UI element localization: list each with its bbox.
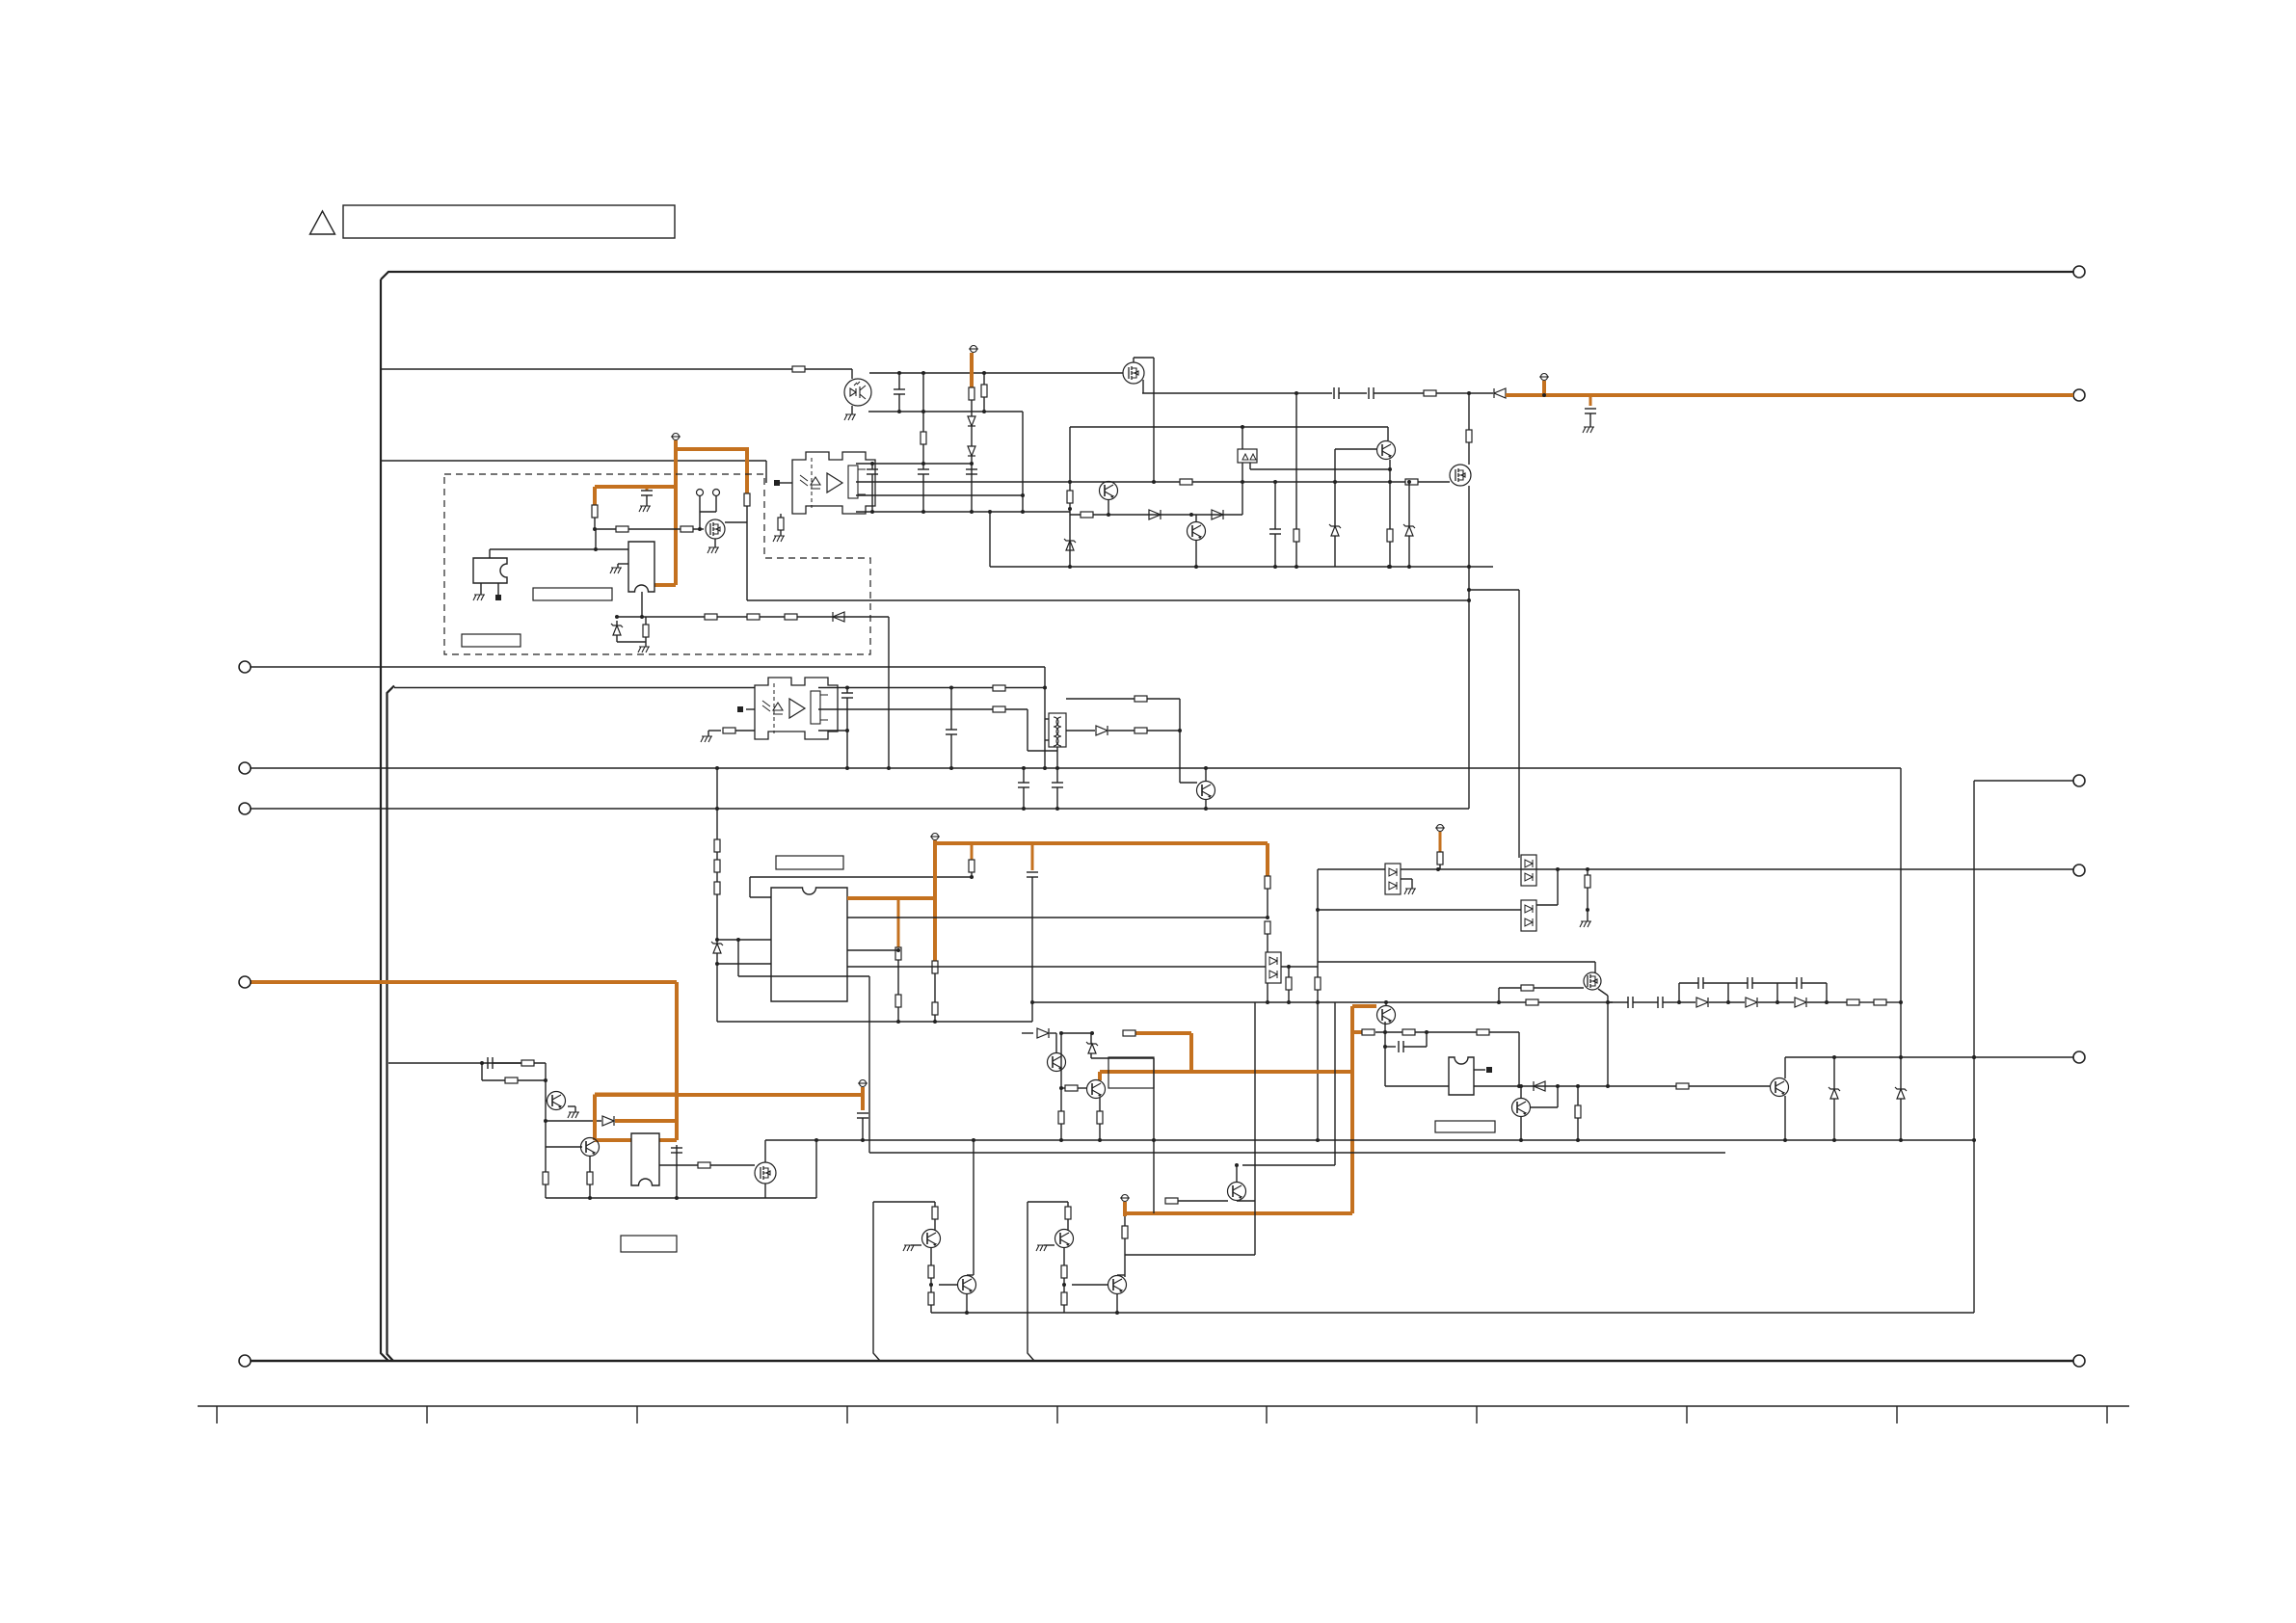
wire: [1045, 739, 1049, 741]
wire: [716, 953, 718, 1022]
resistor: [1065, 1207, 1071, 1219]
wire: [1469, 589, 1519, 591]
wire: [1249, 463, 1251, 469]
resistor: [1067, 491, 1073, 503]
junction: [949, 686, 953, 690]
bottom bus: [251, 1360, 2073, 1363]
wire: [950, 734, 952, 768]
transistor Q9: [1048, 1053, 1066, 1072]
long lower bus 2: [869, 1152, 1725, 1154]
label box: [776, 856, 843, 869]
wire: [1339, 392, 1367, 394]
orange wire: [593, 487, 597, 505]
junction: [1407, 565, 1411, 569]
junction: [965, 1311, 969, 1315]
junction: [1043, 686, 1047, 690]
wire: [1195, 515, 1197, 521]
wire: [1091, 1057, 1154, 1059]
test point: [697, 490, 704, 496]
orange bus: [1100, 1070, 1352, 1074]
main secondary sense wire: [1318, 868, 2073, 870]
capacitor: [1027, 871, 1038, 873]
capacitor: [841, 692, 853, 694]
resistor: [643, 625, 649, 637]
long mid wire: [1032, 1001, 1613, 1003]
junction: [1542, 393, 1546, 397]
orange stub: [861, 1087, 865, 1110]
junction: [1467, 599, 1471, 602]
connector terminal: [2073, 266, 2085, 278]
junction: [1316, 1000, 1320, 1004]
wire: [1807, 1001, 1827, 1003]
zener diode: [1830, 1089, 1838, 1099]
wire: [868, 411, 1023, 412]
wire: [1117, 1274, 1125, 1276]
wire: [1180, 782, 1197, 784]
wire: [738, 975, 869, 977]
wire: [1288, 990, 1290, 1002]
junction: [1899, 1055, 1903, 1059]
wire: [1066, 730, 1095, 732]
capacitor: [1585, 408, 1596, 410]
resistor: [714, 839, 720, 852]
capacitor: [487, 1057, 489, 1069]
ruler tick: [846, 1406, 848, 1423]
wire: [1474, 1069, 1485, 1071]
resistor: [1081, 512, 1093, 518]
resistor: [895, 995, 901, 1007]
wire: [1777, 982, 1797, 984]
wire: [1078, 1087, 1086, 1089]
input pin: [774, 480, 780, 486]
wire: [1067, 1202, 1069, 1207]
wire: [1577, 1118, 1579, 1140]
wire: [1142, 380, 1144, 393]
junction: [1055, 807, 1059, 811]
label box: [462, 634, 521, 647]
wire: [1703, 982, 1728, 984]
wire: [1826, 983, 1828, 1002]
wire: [1108, 481, 1109, 482]
junction: [1556, 867, 1560, 871]
diode: [1746, 998, 1757, 1007]
wire: [595, 528, 704, 530]
wire: [1116, 1294, 1118, 1313]
wire: [1205, 768, 1207, 781]
junction: [1497, 1000, 1501, 1004]
junction: [1043, 766, 1047, 770]
junction: [593, 527, 597, 531]
wire: [871, 464, 873, 469]
capacitor: [641, 490, 653, 492]
resistor: [616, 526, 628, 532]
wire: [1608, 1001, 1628, 1003]
wire: [1520, 1117, 1522, 1140]
orange wire: [595, 485, 676, 489]
wire: [1124, 1238, 1126, 1255]
wire: [1468, 442, 1470, 465]
wire: [1426, 1032, 1428, 1047]
wire: [847, 966, 1266, 968]
junction: [845, 686, 849, 690]
junction: [715, 766, 719, 770]
wire: [1594, 962, 1596, 972]
wire: [847, 917, 1268, 918]
orange wire: [1189, 1033, 1193, 1072]
wire: [950, 688, 952, 731]
junction: [1383, 1045, 1387, 1049]
orange wire IC supply: [847, 896, 935, 900]
zener diode: [613, 625, 621, 635]
orange bus: [935, 841, 1268, 845]
wire: [1439, 865, 1441, 869]
wire: [971, 400, 973, 416]
wire: [1274, 534, 1276, 567]
resistor: [1477, 1029, 1489, 1035]
transistor Q6: [1197, 782, 1215, 800]
wire: [1709, 1001, 1728, 1003]
orange bus: [595, 1093, 677, 1097]
connector terminal: [2073, 389, 2085, 401]
wire: [888, 617, 890, 768]
wire: [1415, 1031, 1477, 1033]
junction: [1068, 507, 1072, 511]
wire: [1063, 1247, 1065, 1265]
orange stub: [1439, 832, 1442, 852]
dual diode D13: [1521, 900, 1536, 931]
ground: [701, 736, 712, 742]
wire: [616, 621, 618, 625]
long lower bus: [765, 1139, 1974, 1141]
wire: [617, 564, 619, 568]
wire: [1242, 1164, 1335, 1166]
wire: [574, 1106, 576, 1112]
wire: [699, 496, 701, 530]
junction: [972, 1138, 975, 1142]
ground: [473, 595, 485, 600]
junction: [870, 462, 874, 466]
transistor Q3: [1188, 522, 1206, 541]
resistor: [1265, 876, 1270, 889]
wire: [1411, 879, 1413, 889]
label box: [1435, 1121, 1495, 1132]
ground: [773, 536, 785, 542]
connector terminal: [239, 803, 251, 814]
wire: [1518, 590, 1520, 858]
orange wire: [659, 1138, 677, 1142]
wire: [818, 730, 847, 732]
junction: [1467, 565, 1471, 569]
wire: [862, 1118, 864, 1140]
resistor: [932, 1207, 938, 1219]
wire: [716, 894, 718, 944]
junction: [1068, 565, 1072, 569]
wire bus: [251, 767, 1901, 769]
orange wire: [646, 487, 649, 491]
wire: [746, 506, 748, 600]
junction: [1556, 1084, 1560, 1088]
wire: [497, 583, 499, 595]
junction: [1467, 391, 1471, 395]
junction: [870, 510, 874, 514]
wire: [1195, 540, 1197, 567]
wire: [676, 1145, 678, 1198]
orange bus: [1125, 1211, 1352, 1215]
wire: [1237, 1200, 1255, 1202]
connector box: [1108, 1057, 1154, 1088]
wire: [1056, 787, 1058, 809]
junction: [1606, 1084, 1610, 1088]
resistor: [792, 366, 805, 372]
orange wire to IC pin: [654, 583, 676, 587]
junction: [1235, 1163, 1239, 1167]
wire: [1031, 877, 1033, 1022]
wire: [1900, 1099, 1902, 1140]
wire: [868, 976, 870, 1153]
resistor: [698, 1162, 710, 1168]
label box: [621, 1236, 677, 1252]
wire: [1056, 747, 1058, 768]
wire: [546, 1197, 816, 1199]
wire: [856, 511, 1070, 513]
ground: [1036, 1245, 1048, 1251]
resistor: [981, 385, 987, 397]
junction: [1519, 1084, 1523, 1088]
junction: [1021, 493, 1025, 497]
junction: [1316, 908, 1320, 912]
junction: [988, 510, 992, 514]
ruler tick: [216, 1406, 218, 1423]
caution triangle: [310, 211, 335, 234]
wire: [1833, 1099, 1835, 1140]
junction: [1115, 1311, 1119, 1315]
orange feed stub: [971, 346, 977, 353]
ruler tick: [1056, 1406, 1058, 1423]
connector terminal: [239, 1355, 251, 1367]
transistor Q15: [1771, 1078, 1789, 1097]
orange stub: [1589, 395, 1592, 406]
diode: [968, 446, 975, 456]
wire: [1099, 1098, 1101, 1111]
junction: [1586, 908, 1589, 912]
capacitor: [1368, 387, 1370, 399]
wire: [1974, 780, 2073, 782]
resistor: [1585, 875, 1590, 888]
wire: [818, 687, 1045, 689]
wire: [594, 518, 596, 529]
wire: [1090, 1033, 1092, 1044]
resistor: [505, 1078, 518, 1083]
junction: [1972, 1055, 1976, 1059]
diode: [1534, 1081, 1545, 1091]
wire: [897, 1007, 899, 1022]
wire: [1061, 1087, 1065, 1089]
wire: [618, 563, 628, 565]
junction: [588, 1196, 592, 1200]
wire: [765, 461, 767, 483]
wire: [1408, 536, 1410, 567]
wire: [1335, 448, 1376, 450]
junction: [897, 410, 901, 413]
wire: [489, 549, 491, 558]
transistor: [958, 1276, 976, 1294]
junction: [1295, 565, 1298, 569]
wire: [394, 687, 755, 689]
diode: [602, 1116, 614, 1126]
junction: [1030, 1000, 1034, 1004]
wire: [1557, 869, 1559, 905]
ground: [1583, 427, 1594, 433]
output stage rail: [1028, 1202, 1034, 1361]
ground: [610, 568, 622, 573]
wire: [1776, 983, 1778, 1002]
wire: [911, 1244, 921, 1246]
wire: [939, 1284, 957, 1286]
ruler line: [198, 1405, 2129, 1407]
wire: [546, 1100, 547, 1102]
junction: [1295, 391, 1298, 395]
resistor: [928, 1265, 934, 1278]
junction: [1388, 565, 1392, 569]
resistor: [1575, 1105, 1581, 1118]
wire: [1663, 1001, 1679, 1003]
output stage rail: [873, 1202, 880, 1361]
MOSFET Q21: [706, 519, 725, 539]
wire: [1389, 542, 1391, 567]
dashed block outline: [444, 474, 870, 654]
orange bus: [595, 1093, 863, 1097]
junction: [1098, 1138, 1102, 1142]
capacitor: [1333, 387, 1335, 399]
junction: [640, 615, 644, 619]
resistor: [543, 1172, 548, 1184]
junction: [921, 462, 925, 466]
capacitor: [867, 468, 878, 470]
wire: [934, 1202, 936, 1207]
capacitor: [1657, 997, 1659, 1008]
wire: [708, 730, 721, 732]
IC4 error amp: [771, 888, 847, 1001]
wire: [971, 456, 973, 512]
junction: [921, 371, 925, 375]
wire: [1153, 358, 1155, 482]
wire: [480, 583, 482, 595]
gate driver module IC6: [792, 452, 875, 514]
wire: [1633, 1001, 1658, 1003]
wire: [930, 1305, 932, 1313]
wire: [595, 529, 597, 549]
wire: [1241, 482, 1243, 515]
junction: [698, 527, 702, 531]
dual diode D14: [1266, 952, 1281, 983]
resistor: [1135, 696, 1147, 702]
junction: [1899, 1138, 1903, 1142]
wire: [1179, 699, 1181, 783]
junction: [1316, 1138, 1320, 1142]
resistor: [1286, 977, 1292, 990]
inner left vertical: [387, 686, 395, 1362]
wire: [646, 495, 648, 506]
ruler tick: [636, 1406, 638, 1423]
wire: [780, 530, 782, 536]
zener diode: [1897, 1089, 1905, 1099]
junction: [929, 1283, 933, 1287]
wire: [1886, 1001, 1901, 1003]
wire: [1777, 1001, 1794, 1003]
wire: [1142, 392, 1332, 394]
cap-diode ladder: [1678, 983, 1680, 1002]
wire: [725, 521, 747, 523]
resistor: [921, 432, 926, 444]
zener diode: [1405, 526, 1413, 536]
wire: [1374, 392, 1424, 394]
wire: [934, 1015, 936, 1022]
zener diode: [713, 944, 721, 953]
wire: [1375, 1031, 1402, 1033]
resistor: [785, 614, 797, 620]
wire: [922, 444, 924, 464]
wire: [851, 369, 853, 379]
junction: [1287, 1000, 1291, 1004]
transistor Q2: [1100, 482, 1118, 500]
orange bus: [933, 840, 937, 961]
junction: [1273, 565, 1277, 569]
capacitor: [1627, 997, 1629, 1008]
resistor: [969, 860, 974, 872]
junction: [1576, 1138, 1580, 1142]
wire: [545, 1063, 547, 1147]
wire: [1385, 1002, 1387, 1005]
wire: [990, 566, 1493, 568]
wire: [846, 698, 848, 768]
wire: [1028, 750, 1057, 752]
wire: [1133, 358, 1135, 362]
junction: [544, 1078, 547, 1082]
capacitor: [946, 729, 957, 731]
connector terminal: [239, 661, 251, 673]
wire: [1070, 514, 1242, 516]
wire: [818, 708, 1028, 710]
connector terminal: [2073, 1355, 2085, 1367]
wire: [1147, 730, 1180, 732]
junction: [1832, 1055, 1836, 1059]
wire: [1023, 787, 1025, 809]
wire: [989, 512, 991, 567]
junction: [1576, 1084, 1580, 1088]
wire: [1385, 1046, 1396, 1048]
junction: [715, 807, 719, 811]
wire: [934, 1219, 936, 1231]
resistor: [681, 526, 693, 532]
junction: [845, 729, 849, 732]
wire: [1679, 1001, 1695, 1003]
resistor: [1097, 1111, 1103, 1124]
wire: [617, 641, 646, 643]
wire: [1900, 1057, 1902, 1089]
resistor: [969, 387, 974, 400]
wire: [898, 373, 900, 389]
power symbol: [932, 834, 939, 840]
junction: [1266, 916, 1269, 919]
wire: [1178, 1200, 1228, 1202]
wire: [1536, 904, 1558, 906]
junction: [1899, 1000, 1903, 1004]
diode: [1096, 726, 1108, 735]
resistor: [705, 614, 717, 620]
wire: [1241, 463, 1243, 482]
wire: [715, 496, 717, 513]
MOSFET Q14: [1584, 972, 1601, 990]
